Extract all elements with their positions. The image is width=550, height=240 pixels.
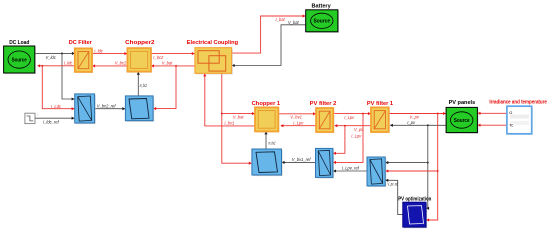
svg-text:Tc: Tc: [509, 122, 513, 127]
wire I_bv1 (Chopper 1 to Electrical Coupling bottom): [203, 73, 255, 126]
controller block current (PV side): [316, 148, 335, 178]
coupling block Electrical Coupling: [195, 48, 233, 75]
svg-text:m_bc2: m_bc2: [140, 83, 147, 88]
filter block PV filter 1: [371, 107, 390, 133]
svg-text:DC Load: DC Load: [9, 40, 29, 46]
svg-text:I_ldc: I_ldc: [94, 49, 103, 54]
svg-text:I_Lpv: I_Lpv: [344, 115, 355, 120]
svg-text:V_bat: V_bat: [288, 20, 300, 25]
svg-text:Source: Source: [454, 118, 470, 124]
filter block DC Filter: [75, 48, 93, 73]
wire I_Lpv (PV filter 2 to PV filter 1): [333, 112, 371, 115]
svg-text:PV filter 1: PV filter 1: [367, 101, 393, 107]
svg-text:V_pv: V_pv: [410, 115, 420, 120]
controller block PI (DC side): [75, 94, 96, 124]
scope block Irradiance and temperature: [507, 106, 533, 135]
wire I_bc2 (Chopper2 to Electrical Coupling): [151, 52, 195, 55]
converter block Chopper 1: [255, 107, 279, 132]
step source block I_ldc_ref: [25, 113, 39, 123]
svg-text:V_bv1_ref: V_bv1_ref: [292, 157, 312, 162]
svg-text:PV filter 2: PV filter 2: [310, 101, 337, 107]
wire V_bc2_ref (controller to inversion block): [95, 107, 126, 110]
svg-text:I_ldc_ref: I_ldc_ref: [43, 119, 60, 124]
wire V_bv1 (Chopper 1 to PV filter 2): [278, 112, 316, 115]
wire V_pv_ref (PV optimization to voltage controller): [385, 179, 403, 215]
svg-text:V_bc2: V_bc2: [115, 61, 127, 66]
svg-text:Source: Source: [12, 58, 27, 64]
wire m_bc2 (inversion block up to Chopper2): [137, 72, 140, 96]
source block PV panels: [446, 107, 478, 133]
svg-text:V_bat: V_bat: [233, 115, 245, 120]
svg-text:PV optimization: PV optimization: [398, 196, 431, 202]
wire G (irradiance block to PV panels): [477, 112, 507, 115]
wire I_ldc (DC Filter to DC Load): [37, 64, 75, 67]
wire I_pv branch to voltage controller: [385, 161, 428, 164]
wire V_bc2 (Chopper2 to DC Filter): [92, 64, 127, 67]
wire V_bat branch down to inversion block: [153, 66, 176, 110]
wire m_bv2 (strategy block up to Chopper 1): [264, 131, 267, 149]
wire I_bat (Electrical Coupling to Battery): [232, 14, 306, 53]
wire V_bv1_ref (current controller to strategy block): [282, 161, 316, 164]
wire I_pv (PV panels to PV filter 1): [390, 124, 446, 127]
wire V_pv branch down to PV optimization: [426, 114, 439, 222]
wire V_bat red (Electrical Coupling to Chopper2): [151, 64, 195, 67]
wire V_ldc (DC Load to DC Filter): [35, 52, 75, 55]
optimization block PV optimization: [403, 202, 427, 228]
svg-text:V_bv1: V_bv1: [290, 115, 302, 120]
source block Battery: [306, 10, 339, 33]
wire I_Lpv branch down to current controller: [333, 114, 363, 164]
strategy inversion block (outputs m_bv2): [252, 149, 283, 176]
svg-text:V_bat: V_bat: [162, 61, 174, 66]
svg-text:V_pv: V_pv: [354, 127, 364, 132]
wire I_ldc (DC Filter to Chopper2): [92, 52, 127, 55]
wire Tc (irradiance block to PV panels): [477, 124, 507, 127]
wire V_bat black (Battery to Electrical Coupling): [232, 25, 306, 67]
wire V_ldc branch down to controller: [62, 53, 75, 100]
svg-text:I_bc2: I_bc2: [153, 55, 164, 60]
svg-text:Electrical Coupling: Electrical Coupling: [187, 40, 238, 46]
wire I_ldc_ref (step to controller): [35, 117, 75, 120]
svg-text:I_Lpv_ref: I_Lpv_ref: [342, 165, 360, 170]
svg-text:Source: Source: [314, 19, 331, 25]
inversion block (DC side, outputs m_bc2): [125, 96, 154, 122]
svg-text:I_Ldc: I_Ldc: [51, 104, 61, 109]
svg-text:m_bv2: m_bv2: [268, 140, 275, 145]
svg-text:I_bv1: I_bv1: [224, 120, 234, 125]
svg-text:I_Lpv: I_Lpv: [351, 133, 362, 138]
svg-text:I_pv: I_pv: [407, 120, 416, 125]
svg-text:V_pv_ref: V_pv_ref: [388, 181, 399, 186]
svg-text:Chopper 1: Chopper 1: [252, 101, 281, 107]
svg-text:Chopper2: Chopper2: [125, 40, 154, 46]
svg-text:V_bc2_ref: V_bc2_ref: [97, 104, 117, 109]
svg-text:PV panels: PV panels: [449, 100, 476, 106]
svg-text:Battery: Battery: [312, 3, 331, 9]
filter block PV filter 2: [316, 108, 334, 133]
converter block Chopper2: [127, 48, 152, 73]
svg-text:V_ldc: V_ldc: [46, 55, 56, 60]
svg-text:I_Lpv: I_Lpv: [293, 120, 304, 125]
controller block voltage (PV side): [367, 157, 386, 187]
wire V_pv branch down to current controller: [333, 126, 345, 155]
wire V_pv branch to voltage controller: [385, 169, 438, 172]
svg-text:G: G: [509, 110, 512, 115]
wire I_ldc branch down to controller: [42, 66, 74, 110]
svg-text:DC Filter: DC Filter: [69, 40, 92, 46]
wire I_pv branch down to PV optimization: [426, 125, 429, 210]
svg-text:I_ldc: I_ldc: [64, 61, 73, 66]
wire V_pv (PV filter 1 to PV panels): [389, 112, 446, 115]
svg-text:I_bat: I_bat: [276, 17, 286, 22]
wire V_bat (Electrical Coupling bottom down to strategy block): [221, 73, 252, 164]
wire V_pv (PV filter 1 to PV filter 2): [334, 124, 371, 127]
wire I_Lpv (PV filter 2 to Chopper 1): [280, 124, 316, 127]
wire I_Lpv_ref (voltage controller to current controller): [333, 169, 367, 172]
wire V_bat branch to Chopper 1: [222, 112, 255, 115]
source block DC Load: [4, 46, 36, 74]
svg-text:Irradiance and temperature: Irradiance and temperature: [489, 99, 547, 105]
